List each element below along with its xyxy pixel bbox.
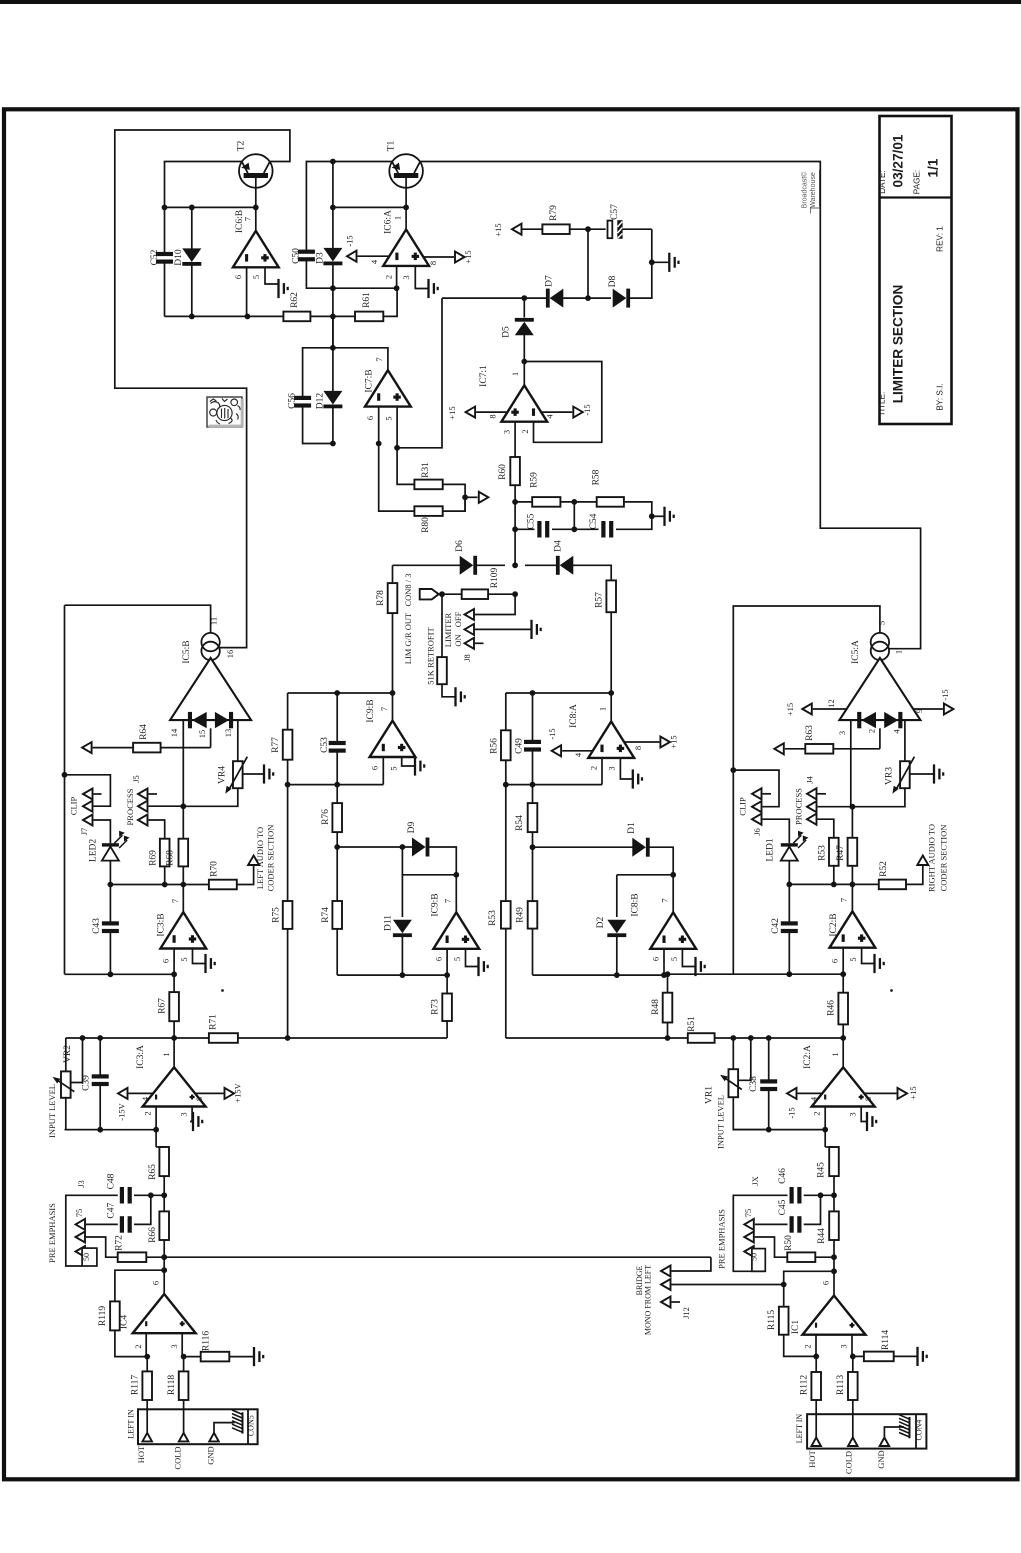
wire T2 base	[255, 177, 257, 231]
junction R46 rail node	[840, 1035, 846, 1041]
junction pin3 IC4	[181, 1354, 187, 1360]
connector pin CON8/3	[420, 589, 439, 599]
svg-text:REV: 1: REV: 1	[936, 226, 945, 252]
wire gnd stub C57	[652, 261, 669, 263]
pin 6 IC8:B	[663, 949, 665, 975]
svg-text:R72: R72	[115, 1235, 125, 1251]
svg-text:J4: J4	[805, 775, 815, 783]
pin 6 IC6:B	[246, 267, 248, 316]
capacitor C57 polarized	[608, 221, 613, 239]
wire R116 to ground	[229, 1356, 253, 1358]
svg-text:VR2: VR2	[63, 1045, 73, 1063]
junction D10 top node	[189, 205, 195, 211]
wire R64 to pin15	[161, 747, 211, 749]
ground VR3	[933, 764, 935, 783]
supply arrow -15V IC3:A	[118, 1088, 128, 1099]
wire R75 bottom to R71 rail	[287, 929, 289, 1038]
jumper arrow 75 JX	[744, 1219, 754, 1230]
junction mono bridge node	[781, 1282, 787, 1288]
vca IC5:A	[871, 633, 889, 651]
supply arrow +15 R79	[512, 224, 522, 235]
svg-text:VR3: VR3	[885, 767, 895, 785]
svg-text:D6: D6	[455, 540, 465, 552]
wire D1 to IC8:B pin7	[649, 847, 673, 912]
svg-text:GND: GND	[206, 1446, 216, 1464]
svg-text:+15: +15	[493, 223, 503, 236]
jumper box J3	[82, 1248, 97, 1266]
op-amp IC6:A	[383, 230, 429, 266]
svg-text:3: 3	[607, 766, 617, 770]
svg-text:R50: R50	[784, 1235, 794, 1251]
potentiometer VR3	[900, 761, 910, 788]
wire GND pin to chassis	[214, 1423, 235, 1433]
junction R48 R51 node	[665, 1035, 671, 1041]
wire R52 to coder arrow	[906, 866, 923, 884]
ground IC9:B upper pin5	[414, 756, 416, 775]
diode D11	[401, 846, 403, 848]
wire R117 to HOT	[146, 1400, 148, 1433]
pin 2 IC1	[815, 1335, 817, 1357]
svg-text:+15: +15	[785, 703, 795, 716]
wire C50 bottom to pin2 node	[306, 260, 396, 288]
junction C47 right node	[148, 1192, 154, 1198]
svg-text:C57: C57	[610, 204, 620, 220]
svg-text:C54: C54	[589, 513, 599, 529]
svg-text:+15: +15	[447, 406, 457, 419]
junction R69 bottom	[162, 882, 168, 888]
junction VR1 wiper	[748, 1035, 754, 1041]
junction D10 bottom	[189, 314, 195, 320]
wire IC5:B pin16	[219, 647, 221, 649]
svg-text:T2: T2	[237, 140, 247, 151]
resistor R74	[332, 901, 342, 929]
junction VR1 top	[730, 1035, 736, 1041]
svg-text:C48: C48	[106, 1173, 116, 1189]
jumper arrow CLIP bottom J6	[752, 814, 762, 825]
svg-text:1: 1	[894, 650, 904, 654]
junction D9 rail left	[334, 844, 340, 850]
svg-text:JX: JX	[750, 1176, 760, 1185]
svg-text:R113: R113	[836, 1375, 846, 1395]
svg-text:6: 6	[370, 766, 380, 770]
svg-text:COLD: COLD	[844, 1451, 854, 1474]
junction C49 top	[530, 690, 536, 696]
svg-text:5: 5	[848, 957, 858, 961]
svg-text:5: 5	[452, 957, 462, 961]
resistor R53 right channel	[829, 838, 839, 866]
junction pin6 D12 wire	[376, 441, 382, 447]
led LED1	[781, 843, 798, 846]
wire T2 collector loop	[115, 130, 290, 648]
svg-text:CON8 / 3: CON8 / 3	[403, 573, 413, 606]
pin COLD CON5	[179, 1433, 189, 1442]
svg-text:R77: R77	[271, 737, 281, 753]
svg-text:14: 14	[169, 728, 179, 737]
svg-text:GND: GND	[876, 1450, 886, 1468]
svg-text:R59: R59	[530, 472, 540, 488]
wire R46 bottom	[842, 1024, 844, 1038]
junction C38 top	[766, 1035, 772, 1041]
resistor R114	[853, 1355, 864, 1357]
pin 1 wire IC5:A	[888, 648, 890, 650]
wire C47 left to 75 arrow	[86, 1223, 118, 1225]
svg-text:Warehouse: Warehouse	[810, 172, 817, 208]
svg-text:5: 5	[251, 275, 261, 279]
svg-text:-15: -15	[787, 1107, 797, 1118]
junction D2 bottom	[614, 972, 620, 978]
wire R45 bottom	[833, 1176, 835, 1211]
op-amp IC3:B	[182, 885, 184, 913]
pin 2 IC6:A	[396, 266, 398, 288]
jumper arrow BRIDGE	[661, 1266, 671, 1277]
svg-text:CON4: CON4	[915, 1420, 924, 1441]
wire 51K retrofit resistor	[441, 594, 443, 657]
capacitor C45	[790, 1216, 794, 1233]
wire R48 top rail	[668, 973, 734, 975]
connector CON5 box	[138, 1409, 258, 1444]
capacitor C46	[790, 1187, 794, 1204]
junction R50 R44 node	[831, 1254, 837, 1260]
wire R112 to HOT	[815, 1400, 817, 1438]
svg-text:PRE EMPHASIS: PRE EMPHASIS	[717, 1209, 727, 1269]
svg-text:2: 2	[867, 729, 877, 733]
svg-text:C42: C42	[771, 918, 781, 934]
junction R109 node	[512, 591, 518, 597]
junction R47 IC2:B out node	[850, 882, 856, 888]
pin 3 IC7:1	[514, 422, 516, 457]
svg-text:R78: R78	[376, 590, 386, 606]
wire pin5 to tall net	[397, 298, 442, 448]
svg-text:1: 1	[830, 1052, 840, 1056]
svg-text:R67: R67	[158, 998, 168, 1014]
svg-text:LIMITER SECTION: LIMITER SECTION	[891, 285, 906, 404]
svg-text:IC2:B: IC2:B	[829, 913, 839, 936]
svg-text:3: 3	[179, 1112, 189, 1116]
junction T2 base node	[253, 205, 259, 211]
wire R115 top	[784, 1271, 834, 1306]
capacitor C42	[788, 884, 790, 921]
junction pin6 node	[245, 314, 251, 320]
svg-text:HOT: HOT	[807, 1449, 817, 1467]
svg-text:3: 3	[169, 1344, 179, 1348]
vca IC5:B	[201, 633, 219, 651]
svg-text:D12: D12	[316, 393, 326, 410]
wire T1 emitter to C50	[306, 162, 392, 251]
wire R49 bottom	[532, 929, 534, 976]
svg-text:7: 7	[839, 898, 849, 902]
junction D11 bottom	[400, 972, 406, 978]
wire C48 left bracket J3	[66, 1195, 118, 1266]
svg-text:R119: R119	[98, 1306, 108, 1326]
potentiometer VR4	[233, 761, 243, 788]
junction pin2 IC3:A	[153, 1127, 159, 1133]
supply arrow +15 IC6:A pin8	[455, 252, 465, 263]
svg-text:COLD: COLD	[172, 1446, 182, 1469]
svg-text:D3: D3	[316, 252, 326, 264]
pin 5 IC2:B	[862, 948, 874, 964]
wire R62 to R61	[310, 315, 355, 317]
port arrow LEFT AUDIO	[248, 856, 259, 866]
wire LED2 anode down	[109, 861, 111, 885]
wire audio column top	[64, 605, 66, 974]
junction C38 bottom	[766, 1127, 772, 1133]
svg-text:J7: J7	[79, 828, 89, 836]
diode D6	[460, 556, 477, 575]
pin 5 IC9:B upper	[402, 757, 414, 766]
resistor R78	[388, 583, 398, 613]
resistor R31	[414, 480, 442, 490]
ground IC9:B lower pin5	[477, 957, 479, 976]
svg-text:-15: -15	[582, 404, 592, 415]
svg-text:R48: R48	[651, 999, 661, 1015]
junction D5 top	[521, 295, 527, 301]
svg-text:R62: R62	[290, 292, 300, 308]
svg-text:75: 75	[743, 1209, 753, 1218]
junction R58 gnd node	[649, 513, 655, 519]
resistor R59	[515, 501, 532, 503]
svg-text:C45: C45	[778, 1199, 788, 1215]
svg-text:7: 7	[374, 357, 384, 361]
jumper arrow mid JX	[744, 1232, 754, 1243]
diode D3	[332, 162, 334, 249]
wire C57 ground column	[622, 228, 651, 230]
svg-text:2: 2	[133, 1344, 143, 1348]
pin 3 IC3:A	[190, 1107, 192, 1122]
svg-text:LED1: LED1	[766, 838, 776, 861]
wire T1 base	[405, 177, 407, 230]
wire R68 bottom	[182, 866, 184, 884]
svg-text:3: 3	[837, 731, 847, 735]
svg-text:7: 7	[443, 899, 453, 903]
wire limiter rail D6 D4	[393, 564, 461, 566]
pin GND CON5	[209, 1433, 219, 1442]
svg-text:R58: R58	[592, 469, 602, 485]
wire R31 right	[443, 484, 465, 511]
wire R119 top	[115, 1270, 164, 1301]
wire C56 bottom	[303, 407, 333, 443]
wire R57 down to pin1 node	[610, 612, 612, 693]
junction C53 bottom	[334, 782, 340, 788]
svg-text:J5: J5	[131, 775, 141, 783]
svg-text:LEFT AUDIO TO: LEFT AUDIO TO	[255, 827, 265, 889]
pin 6 IC3:B	[173, 949, 175, 975]
junction D1 rail left	[530, 844, 536, 850]
wire pin2 rail left	[65, 1129, 157, 1131]
svg-text:8: 8	[633, 746, 643, 750]
wire rail to R48 top	[664, 974, 668, 976]
op-amp IC9:B upper	[370, 721, 416, 757]
svg-text:8: 8	[194, 1097, 204, 1101]
wire R78 bottom	[392, 613, 394, 721]
resistor R56	[505, 693, 507, 730]
svg-text:R60: R60	[498, 464, 508, 480]
junction D12 bottom	[330, 441, 336, 447]
resistor R109	[462, 589, 488, 599]
svg-text:R66: R66	[148, 1227, 158, 1243]
junction R62/R61 node	[330, 314, 336, 320]
op-amp IC7:1 (+/- swapped)	[523, 362, 525, 386]
op-amp IC9:B lower	[433, 912, 479, 948]
svg-text:R75: R75	[272, 907, 282, 923]
junction D3 bottom node	[330, 285, 336, 291]
svg-text:VR4: VR4	[218, 766, 228, 784]
pin 3 IC2:A	[861, 1107, 866, 1122]
svg-text:2: 2	[803, 1344, 813, 1348]
supply arrow +15V IC3:A	[225, 1088, 235, 1099]
resistor R50	[787, 1252, 815, 1262]
pin 5 IC7:B	[396, 407, 398, 448]
resistor R65	[159, 1147, 169, 1176]
pin GND CON4	[880, 1438, 890, 1447]
svg-text:CLIP: CLIP	[738, 797, 748, 816]
pin 5 IC9:B lower	[466, 949, 478, 967]
supply arrow +15 IC7:1 pin8	[466, 407, 476, 418]
svg-text:-15V: -15V	[117, 1102, 127, 1120]
feedback loop IC7:1	[524, 362, 602, 443]
diode D1	[632, 838, 649, 857]
resistor R76	[332, 803, 342, 832]
svg-text:CODER SECTION: CODER SECTION	[939, 825, 949, 892]
diode D12	[332, 348, 334, 391]
svg-text:R80: R80	[421, 517, 431, 533]
svg-text:R45: R45	[817, 1162, 827, 1178]
transistor T1	[389, 154, 423, 188]
junction R57 IC8:A pin1 node	[608, 690, 614, 696]
pin HOT CON5	[142, 1433, 152, 1442]
svg-text:LIM G/R OUT: LIM G/R OUT	[403, 612, 413, 664]
wire R59 to R58	[560, 501, 596, 503]
wire R58 to ground	[624, 502, 652, 516]
junction R59 node	[512, 499, 518, 505]
resistor R119	[110, 1301, 120, 1330]
svg-text:15: 15	[197, 730, 207, 739]
op-amp IC3:A	[173, 1038, 175, 1067]
svg-text:C52: C52	[150, 249, 160, 265]
svg-text:D2: D2	[596, 916, 606, 928]
svg-text:R44: R44	[817, 1228, 827, 1244]
wire R79 C57 row	[522, 228, 606, 230]
resistor R112	[815, 1356, 817, 1372]
resistor R46	[842, 974, 844, 993]
wire mid rail right segment	[506, 692, 611, 694]
junction C53 top	[334, 690, 340, 696]
svg-text:J12: J12	[681, 1307, 691, 1319]
wire left input rail	[66, 1037, 209, 1039]
junction D7 D8 mid	[585, 295, 591, 301]
resistor R67	[173, 974, 175, 992]
svg-text:IC7:B: IC7:B	[365, 369, 375, 392]
jumper arrow limiter OFF	[465, 609, 475, 620]
svg-text:J6: J6	[752, 828, 762, 836]
junction pin2 IC1	[813, 1354, 819, 1360]
svg-text:+15: +15	[908, 1086, 918, 1099]
wire R114 to ground	[894, 1355, 917, 1357]
svg-text:6: 6	[830, 959, 840, 963]
wire R70 to coder arrow	[237, 866, 254, 885]
svg-text:R31: R31	[421, 462, 431, 478]
svg-text:R56: R56	[490, 738, 500, 754]
jumper arrow PROCESS bottom J5	[138, 815, 148, 826]
wire node down to D7/D8	[587, 229, 589, 298]
junction R77 bottom	[285, 782, 291, 788]
wire IC7:B pin7 to node	[333, 348, 388, 370]
junction C52 top node	[162, 205, 168, 211]
svg-text:C39: C39	[82, 1075, 92, 1091]
svg-text:J3: J3	[76, 1180, 86, 1188]
resistor R80	[414, 506, 442, 516]
junction D11 top	[400, 844, 406, 850]
supply arrow -15 IC5:A pin9	[944, 704, 954, 715]
resistor R69	[160, 839, 170, 867]
wire VR1 wiper up	[738, 1038, 751, 1080]
pin 2 IC8:A	[601, 758, 603, 785]
wire R115 bottom	[784, 1335, 817, 1357]
potentiometer VR2	[65, 1038, 67, 1071]
svg-text:51K RETROFIT: 51K RETROFIT	[426, 627, 436, 685]
svg-text:R118: R118	[167, 1375, 177, 1395]
junction C46 node	[831, 1192, 837, 1198]
wire VR4 bottom to process node	[183, 788, 238, 806]
svg-text:-15: -15	[940, 689, 950, 700]
diode D9	[412, 838, 429, 857]
capacitor C39	[99, 1038, 101, 1075]
jumper arrow 75 J3	[76, 1219, 86, 1230]
capacitor C53	[336, 693, 338, 741]
svg-text:CODER SECTION: CODER SECTION	[266, 825, 276, 892]
resistor R70	[209, 880, 237, 890]
pin 3 IC5:A	[850, 720, 852, 807]
svg-text:IC4: IC4	[120, 1315, 130, 1330]
jumper arrow limiter ON	[465, 638, 475, 649]
ground VR4	[263, 764, 265, 783]
jumper arrow CLIP top J6	[752, 788, 762, 799]
junction IC7:B node	[330, 345, 336, 351]
junction D6 D4 node	[512, 562, 518, 568]
op-amp IC8:B	[650, 912, 696, 948]
svg-text:R54: R54	[515, 815, 525, 831]
junction C48 node	[161, 1192, 167, 1198]
jumper arrow CLIP mid J7	[83, 801, 93, 812]
svg-text:IC5:A: IC5:A	[851, 640, 861, 664]
capacitor C54	[574, 528, 598, 530]
svg-text:R68: R68	[165, 850, 175, 866]
pin 5 IC6:B	[265, 267, 278, 284]
svg-text:50: 50	[750, 1253, 759, 1261]
capacitor C52	[156, 252, 173, 256]
junction pin2 IC4	[144, 1354, 150, 1360]
wire R77 bottom	[287, 760, 289, 785]
resistor R48	[667, 974, 669, 993]
supply arrow +15 IC5:A pin12	[802, 704, 812, 715]
svg-text:5: 5	[669, 957, 679, 961]
wire D8 to C57 column	[630, 229, 652, 298]
wire R66 bottom	[163, 1240, 165, 1294]
svg-text:RIGHT AUDIO TO: RIGHT AUDIO TO	[927, 824, 937, 892]
svg-text:12: 12	[826, 699, 836, 708]
svg-text:IC9:B: IC9:B	[431, 893, 441, 916]
svg-text:-15: -15	[345, 235, 355, 246]
svg-text:5: 5	[179, 957, 189, 961]
svg-text:R53: R53	[488, 910, 498, 926]
svg-text:R46: R46	[827, 1000, 837, 1016]
jumper arrow CLIP bottom J7	[83, 815, 93, 826]
svg-text:2: 2	[589, 766, 599, 770]
svg-text:7: 7	[170, 899, 180, 903]
wire pin2 down to R65	[155, 1130, 157, 1147]
wire inverting bus R62 R61	[165, 315, 284, 317]
wire R113 to COLD	[852, 1400, 854, 1438]
wire pin2 down to R45	[824, 1130, 826, 1147]
